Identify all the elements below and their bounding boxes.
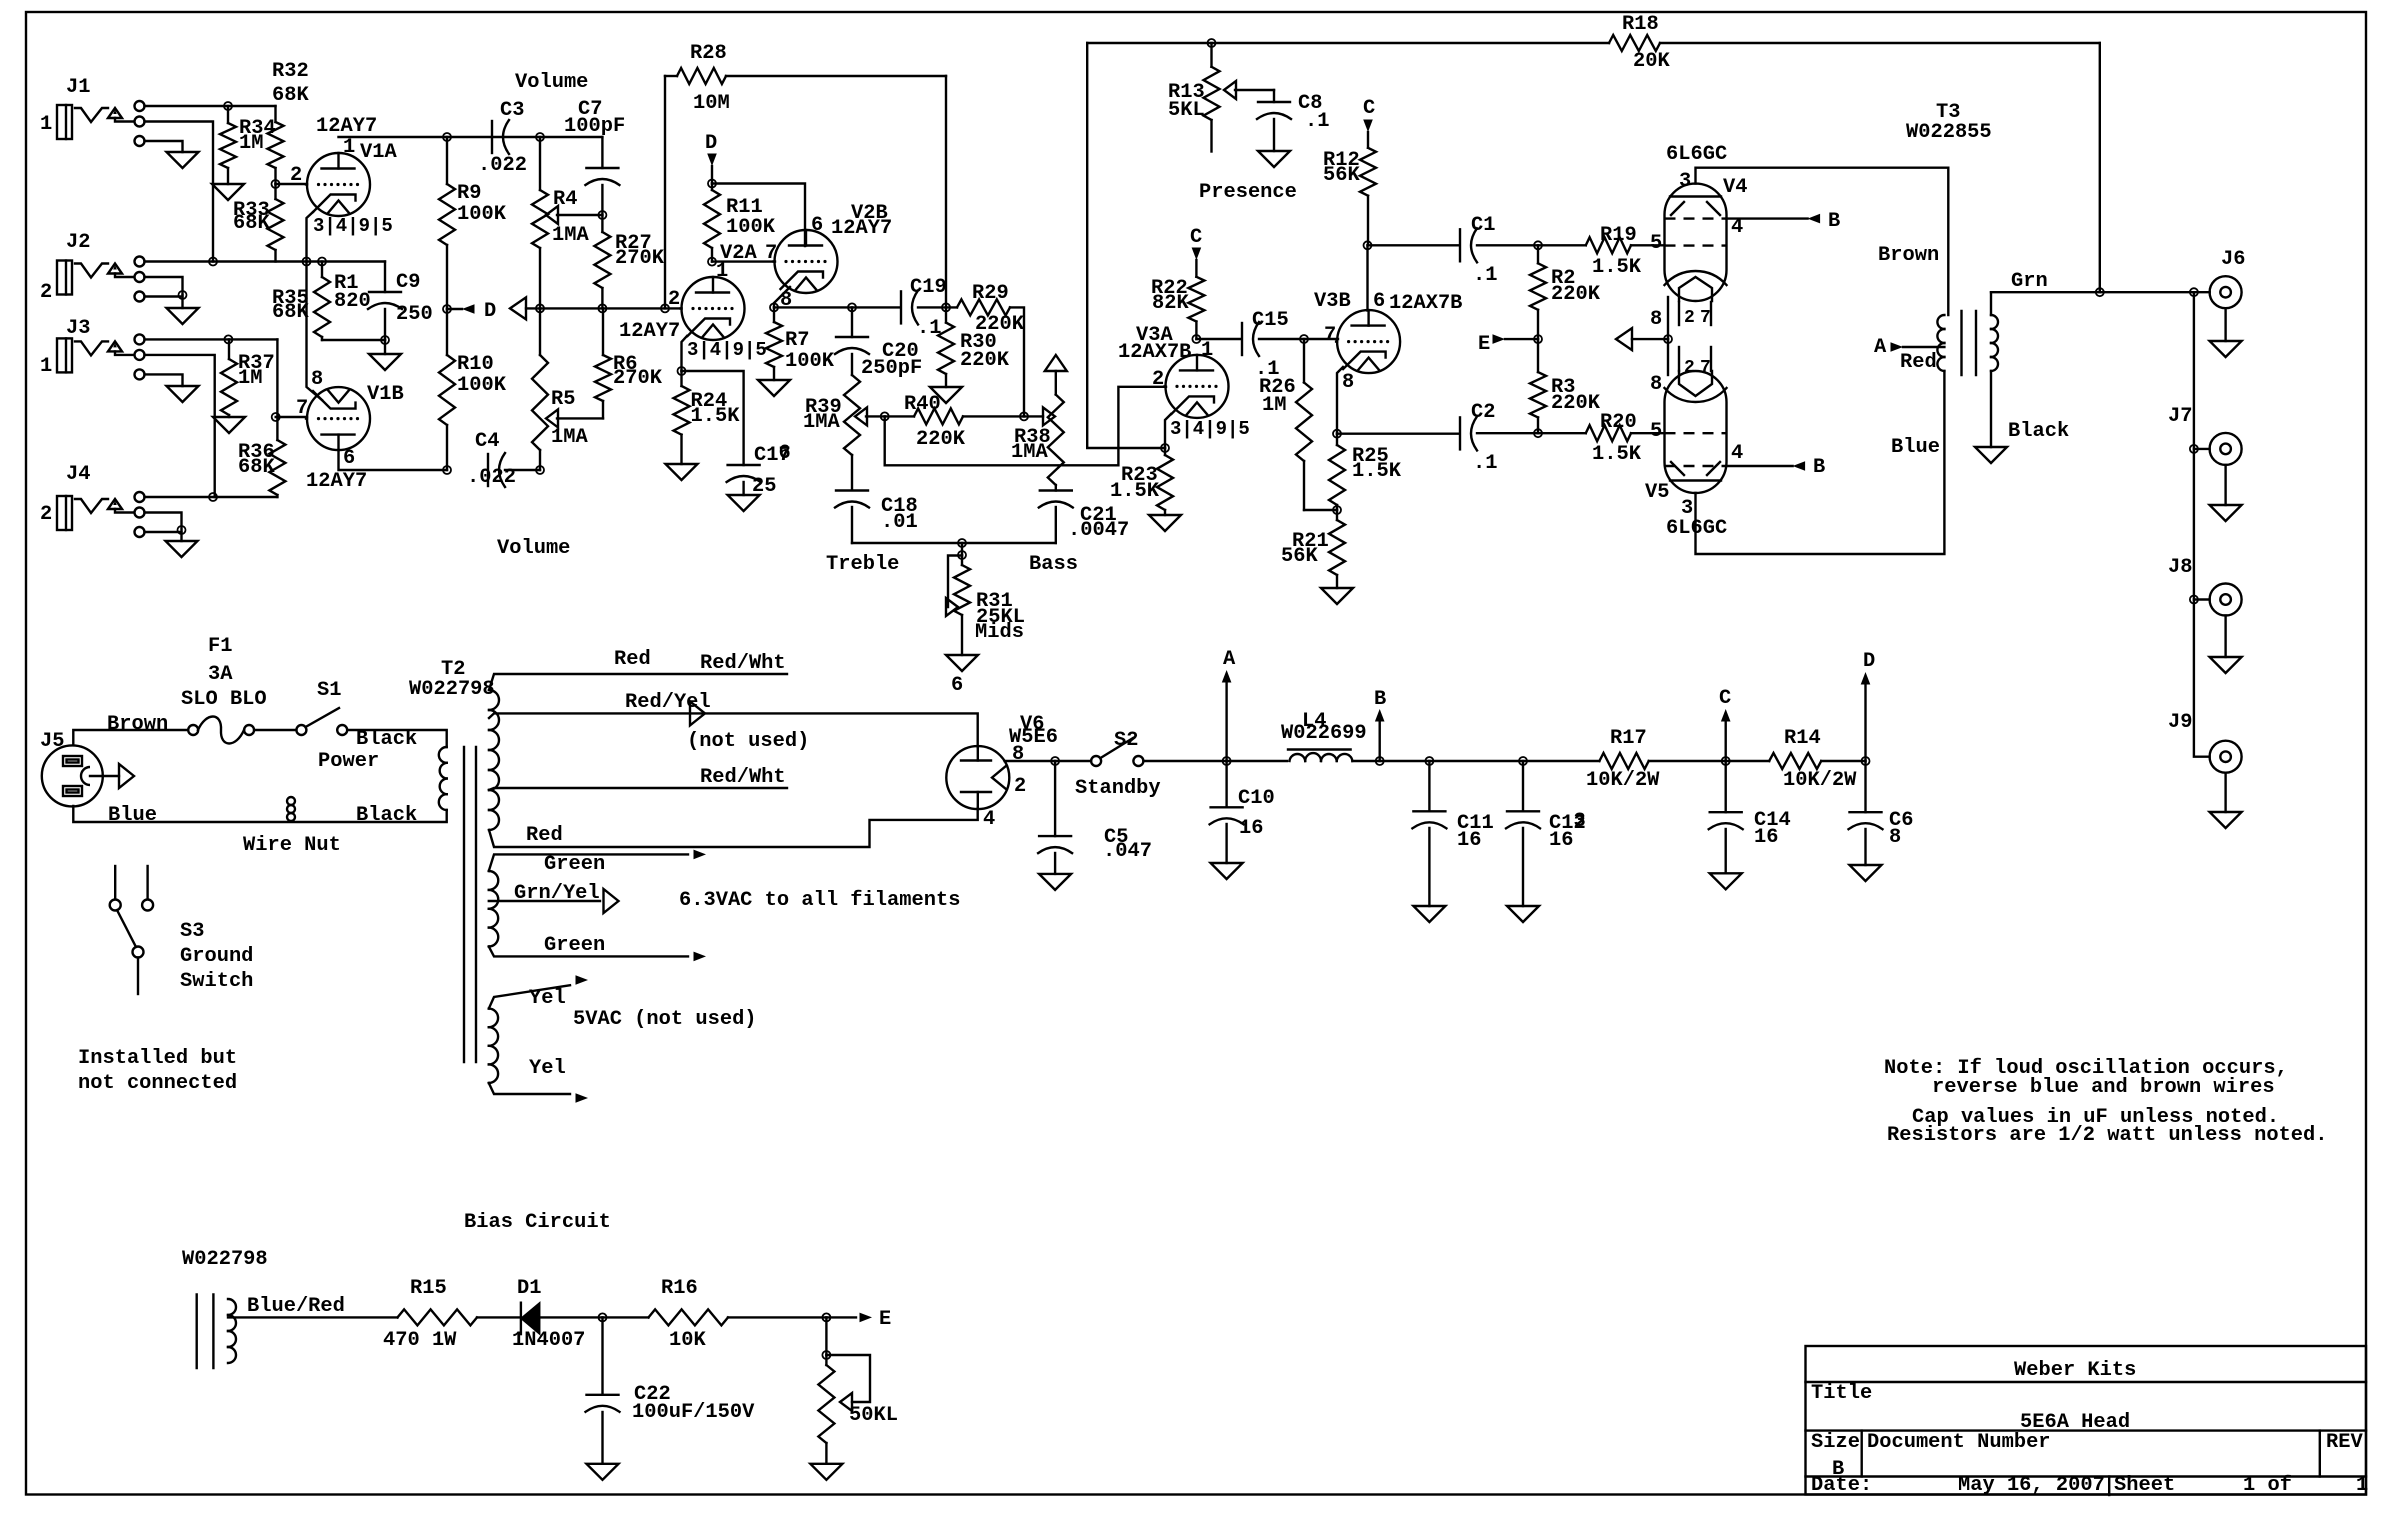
R9 value 100K (457, 203, 507, 226)
potentiometer R13 presence (1204, 43, 1220, 152)
svg-text:R29: R29 (972, 282, 1009, 305)
R19 label (1600, 224, 1637, 247)
V6 type W5E6 (1009, 726, 1058, 749)
Red label HV bottom (526, 824, 563, 847)
svg-text:1 of: 1 of (2243, 1474, 2292, 1497)
svg-text:220K: 220K (960, 349, 1010, 372)
T2 HV redyel lead (489, 713, 978, 747)
power plug J5 (42, 745, 119, 806)
R23 label (1121, 464, 1158, 487)
net D tag (447, 300, 496, 323)
R29 value 220K (975, 313, 1025, 336)
V1A cathode wire (307, 212, 314, 262)
J3 sleeve contact (135, 369, 145, 379)
wire C1 to R19 (1477, 244, 1586, 246)
R12 value 56K (1323, 164, 1360, 187)
junction C rail (1722, 757, 1730, 765)
V5 cathode dome (1665, 388, 1727, 402)
Blue/Red label (247, 1295, 345, 1318)
Black label top (356, 728, 417, 751)
J1 sleeve contact (135, 136, 145, 146)
svg-text:V3B: V3B (1314, 290, 1351, 313)
R6 label (613, 353, 637, 376)
capacitor C21 (1039, 491, 1073, 544)
wire J9 ground stem (2224, 773, 2226, 812)
net D arrow rail (1861, 650, 1876, 761)
net A arrow (1222, 648, 1236, 761)
wire V3B cathode row (1337, 433, 1459, 435)
wire speaker jack chain (2194, 292, 2210, 757)
T2 yel bottom lead (489, 1083, 570, 1094)
svg-text:82K: 82K (1152, 292, 1189, 315)
svg-text:2: 2 (1684, 308, 1695, 328)
V3A cathode wire (1165, 414, 1171, 448)
S1 label (317, 679, 341, 702)
svg-text:R16: R16 (661, 1277, 698, 1300)
not connected label (78, 1072, 237, 1095)
R30 label (960, 331, 997, 354)
heater arrow bottom (694, 952, 707, 962)
svg-text:Black: Black (356, 804, 417, 827)
V5 plate dashed (1665, 465, 1727, 467)
R24 value 1.5K (691, 405, 741, 428)
junction R11/V2A plate (708, 258, 716, 266)
V1A pins 3|4|9|5 (313, 215, 393, 237)
wire J4 tip rail (145, 496, 278, 498)
switch S2 (1091, 738, 1143, 766)
C2 label (1471, 401, 1495, 424)
R24 label (691, 390, 728, 413)
J7 label (2168, 405, 2192, 428)
C3 label (500, 99, 524, 122)
svg-text:1N4007: 1N4007 (512, 1329, 585, 1352)
J2 sleeve contact (135, 292, 145, 302)
L4 part number W022699 (1281, 722, 1367, 745)
J8 label (2168, 556, 2192, 579)
svg-text:V4: V4 (1723, 176, 1747, 199)
C9 label (396, 271, 420, 294)
svg-text:2: 2 (40, 503, 52, 526)
V5 heater pins 2 7 (1679, 347, 1711, 378)
junction R2/R3 node E (1534, 335, 1542, 343)
R6 value 270K (613, 367, 663, 390)
ground R34 (212, 184, 244, 200)
svg-text:Blue: Blue (108, 804, 157, 827)
V3B pin 8 label (1342, 371, 1354, 394)
wire R26 bottom (1304, 509, 1337, 511)
ground C6 (1850, 865, 1882, 881)
R34 value 1M (239, 132, 263, 155)
junction V3B plate (1364, 241, 1372, 249)
note oscillation line 2 (1932, 1076, 2275, 1099)
junction V3A plate (1192, 335, 1200, 343)
capacitor C3 (492, 120, 509, 154)
svg-text:16: 16 (1549, 829, 1573, 852)
resistor R14 (1769, 753, 1865, 769)
ground R24 (666, 464, 698, 480)
V3B pin 6 label (1373, 290, 1385, 313)
svg-text:16: 16 (1239, 817, 1263, 840)
V4 heater pins 2 7 (1679, 302, 1711, 328)
junction V1B plate/R10 (443, 466, 451, 474)
R10 label (457, 353, 494, 376)
wire C19 to R29 (918, 306, 957, 308)
capacitor C20 (835, 307, 869, 375)
R2 value 220K (1551, 283, 1601, 306)
junction plate/R4 (536, 133, 544, 141)
R37 value 1M (238, 367, 262, 390)
resistor R36 (269, 417, 285, 497)
wire S1 to T2 (347, 730, 447, 747)
V2B grid wire (712, 260, 775, 262)
R39 wiper (855, 407, 885, 425)
R36 value 68K (238, 456, 275, 479)
transformer T2 HV winding (489, 690, 499, 830)
V5 pin 4 label (1731, 442, 1743, 465)
sheet 1 of (2243, 1474, 2292, 1497)
R39 label (805, 396, 842, 419)
svg-text:3A: 3A (208, 663, 233, 686)
Red label T3 (1900, 351, 1937, 374)
svg-text:J4: J4 (66, 463, 90, 486)
svg-text:270K: 270K (615, 247, 665, 270)
C5 label (1104, 826, 1128, 849)
ground R31 (946, 655, 978, 671)
wire V3B plate row (1368, 244, 1460, 246)
title block date row line (1806, 1475, 2367, 1477)
V3B type 12AX7B (1389, 292, 1462, 315)
V2B type 12AY7 (831, 217, 892, 240)
V6 label (1020, 713, 1044, 736)
junction R13 top (1208, 39, 1216, 47)
wire J1 ring down to J2 tip (145, 122, 214, 262)
svg-text:C3: C3 (500, 99, 524, 122)
svg-text:Black: Black (2008, 420, 2069, 443)
svg-text:68K: 68K (233, 212, 270, 235)
C22 label (634, 1383, 671, 1406)
wire R13 wiper to C8 (1273, 90, 1275, 102)
svg-text:V1B: V1B (367, 383, 404, 406)
bias pot value 50KL (849, 1404, 898, 1427)
svg-text:Ground: Ground (180, 945, 253, 968)
resistor R24 (674, 371, 690, 464)
svg-text:D1: D1 (517, 1277, 541, 1300)
junction C5 (1051, 757, 1059, 765)
svg-text:R10: R10 (457, 353, 494, 376)
V4 pin 4 label (1731, 216, 1743, 239)
ground C5 (1039, 874, 1071, 890)
capacitor C19 (901, 290, 918, 324)
R33 value 68K (233, 212, 270, 235)
Black label bottom (356, 804, 417, 827)
svg-text:J6: J6 (2221, 248, 2245, 271)
R15 label (410, 1277, 447, 1300)
R27 value 270K (615, 247, 665, 270)
svg-text:Switch: Switch (180, 970, 253, 993)
Presence label (1199, 181, 1297, 204)
ground J3 sleeve (167, 386, 199, 402)
ground R21 (1321, 588, 1353, 604)
V1A label (360, 141, 397, 164)
svg-text:D: D (1863, 650, 1875, 673)
Volume label top (515, 71, 588, 94)
net B arrow V5 (1793, 456, 1826, 479)
V2B label (851, 202, 888, 225)
V1B pin 8 label (311, 368, 323, 391)
C12 value 16 (1549, 829, 1573, 852)
V4 top hatch right (1707, 202, 1720, 215)
svg-text:Bias Circuit: Bias Circuit (464, 1211, 611, 1234)
V5 grid dashed (1665, 432, 1727, 434)
resistor R40 (885, 408, 1024, 424)
svg-text:1: 1 (40, 355, 52, 378)
V3B plate lead (1366, 245, 1368, 310)
R14 value 10K/2W (1783, 769, 1857, 792)
capacitor C10 (1210, 761, 1244, 863)
Power label (318, 750, 379, 773)
V3A grid pin 2 label (1152, 368, 1164, 391)
inductor L4 (1288, 750, 1352, 762)
wire mids stem (961, 543, 963, 555)
potentiometer R4 (532, 137, 548, 309)
svg-text:1M: 1M (1262, 394, 1286, 417)
T2 part number W022798 (409, 678, 495, 701)
svg-text:Resistors are 1/2 watt unless: Resistors are 1/2 watt unless noted. (1887, 1124, 2328, 1147)
C20 value 250pF (861, 357, 922, 380)
wire tone stack bottom (852, 542, 1056, 544)
Black label T3 (2008, 420, 2069, 443)
Grn/Yel open arrow (604, 889, 619, 913)
svg-text:10M: 10M (693, 92, 730, 115)
svg-text:S3: S3 (180, 920, 204, 943)
speaker jack J7 (2210, 433, 2242, 465)
R13 wiper (1224, 81, 1274, 99)
svg-text:10K/2W: 10K/2W (1783, 769, 1857, 792)
svg-text:Red: Red (614, 648, 651, 671)
wire to ground R1C9 (384, 340, 386, 354)
bias pot wiper (826, 1355, 870, 1411)
junction V2A cathode (678, 367, 686, 375)
svg-text:100pF: 100pF (564, 115, 625, 138)
C3 value .022 (478, 154, 527, 177)
title block outer box (1806, 1346, 2367, 1495)
Grn/Yel label (514, 882, 600, 905)
resistor R9 (439, 137, 455, 309)
V2B cathode wire (774, 287, 790, 307)
svg-text:250: 250 (396, 303, 433, 326)
C7 label (578, 98, 602, 121)
wire presence line down (1087, 43, 1165, 448)
junction V1A grid node (272, 180, 280, 188)
R14 label (1784, 727, 1821, 750)
C4 value .022 (467, 466, 516, 489)
R1 label (334, 272, 358, 295)
R40 label (904, 393, 941, 416)
V2A cathode wire (682, 336, 688, 371)
svg-text:100K: 100K (457, 203, 507, 226)
svg-text:2: 2 (1152, 368, 1164, 391)
T3 part number W022855 (1906, 121, 1992, 144)
wire volume row (540, 307, 682, 309)
R29 label (972, 282, 1009, 305)
title block rev divider (2319, 1431, 2321, 1477)
ground C12 (1507, 906, 1539, 922)
svg-text:10K/2W: 10K/2W (1586, 769, 1660, 792)
svg-text:A: A (1223, 648, 1236, 671)
Blue label AC (108, 804, 157, 827)
capacitor C5 (1038, 761, 1072, 874)
junction R1 top (318, 258, 326, 266)
resistor R27 (594, 215, 610, 308)
resistor R28 (665, 68, 946, 84)
Red/Wht label 2 (700, 766, 786, 789)
R27 label (615, 232, 652, 255)
D1 label (517, 1277, 541, 1300)
R25 value 1.5K (1352, 460, 1402, 483)
svg-text:270K: 270K (613, 367, 663, 390)
V1B plate wire (339, 450, 448, 470)
transformer T2 heater winding (489, 871, 498, 947)
wire D to V2B plate (712, 184, 805, 247)
R16 value 10K (669, 1329, 706, 1352)
resistor R19 (1586, 237, 1665, 253)
svg-text:1M: 1M (238, 367, 262, 390)
wire V3A plate to C15 (1196, 338, 1241, 340)
junction J4 ring/sleeve (178, 526, 186, 534)
junction V1B grid (272, 413, 280, 421)
resistor R25 (1329, 434, 1345, 510)
C1 value .1 (1473, 264, 1497, 287)
resistor R33 (268, 184, 284, 262)
title block title row line (1806, 1429, 2367, 1431)
wire J3 sleeve to ground (145, 374, 183, 386)
junction V2B cathode (770, 303, 778, 311)
svg-text:Red/Wht: Red/Wht (700, 652, 786, 675)
junction J8 (2190, 596, 2198, 604)
R13 value 5KL (1168, 99, 1205, 122)
R35 value 68K (272, 301, 309, 324)
resistor R17 (1599, 753, 1769, 769)
svg-text:May 16, 2007: May 16, 2007 (1958, 1474, 2105, 1497)
diode D1 (521, 1303, 603, 1334)
svg-text:4: 4 (1731, 442, 1743, 465)
svg-text:Bass: Bass (1029, 553, 1078, 576)
svg-text:.1: .1 (1473, 452, 1497, 475)
V5 pin 4 wire (1727, 465, 1793, 467)
J3 pin 1 label (40, 355, 52, 378)
svg-text:8: 8 (311, 368, 323, 391)
wire L4 to R17 (1352, 760, 1599, 762)
wire J7 ground stem (2224, 465, 2226, 505)
svg-text:R28: R28 (690, 42, 727, 65)
junction R27/R6 (598, 304, 606, 312)
junction plate/R9 (443, 133, 451, 141)
junction bias pot wiper (822, 1351, 830, 1359)
T2 green top lead (489, 854, 688, 871)
R40 value 220K (916, 428, 966, 451)
J2 label (66, 231, 90, 254)
C14 label (1754, 809, 1791, 832)
net arrow to cathodes (1616, 328, 1668, 350)
wire V1A plate rail (339, 136, 603, 138)
ground bias pot (810, 1464, 842, 1480)
S3 Switch label (180, 970, 253, 993)
svg-text:REV: REV (2326, 1431, 2363, 1454)
T2 core (464, 747, 476, 1062)
Red/Yel open arrow (690, 701, 705, 725)
svg-text:R9: R9 (457, 182, 481, 205)
C15 value .1 (1255, 358, 1279, 381)
V4 top hatch left (1671, 202, 1684, 215)
R5 wiper (546, 409, 603, 427)
resistor R10 (439, 309, 455, 470)
V3A pin 1 label (1201, 339, 1213, 362)
svg-text:C15: C15 (1252, 309, 1289, 332)
resistor R30 (938, 307, 954, 387)
svg-text:(not used): (not used) (687, 730, 809, 753)
svg-text:B: B (1813, 456, 1825, 479)
C18 label (881, 495, 918, 518)
svg-text:12AY7: 12AY7 (306, 470, 367, 493)
svg-text:Red: Red (1900, 351, 1937, 374)
svg-text:2: 2 (290, 164, 302, 187)
V1A grid pin 2 label (290, 164, 302, 187)
svg-text:Title: Title (1811, 1382, 1872, 1405)
5VAC note (573, 1008, 757, 1031)
transformer T3 primary coil (1937, 315, 1944, 371)
V3B label (1314, 290, 1351, 313)
V4 pin 8 label (1650, 308, 1662, 331)
R36 label (238, 441, 275, 464)
svg-text:R40: R40 (904, 393, 941, 416)
svg-text:5: 5 (1650, 232, 1662, 255)
R11 label (726, 196, 763, 219)
triode V3A (1165, 355, 1229, 418)
J1 ring contact (135, 117, 145, 127)
svg-text:R19: R19 (1600, 224, 1637, 247)
Bass label (1029, 553, 1078, 576)
svg-text:250pF: 250pF (861, 357, 922, 380)
T2 green bottom lead (489, 947, 688, 957)
6L6GC label bottom (1666, 517, 1727, 540)
svg-text:J9: J9 (2168, 711, 2192, 734)
svg-text:6L6GC: 6L6GC (1666, 143, 1727, 166)
capacitor C18 (835, 491, 869, 544)
svg-text:1: 1 (2356, 1474, 2368, 1497)
svg-text:J7: J7 (2168, 405, 2192, 428)
svg-text:1MA: 1MA (552, 224, 589, 247)
C17 label (754, 442, 791, 467)
svg-text:100K: 100K (457, 374, 507, 397)
jack J2 (57, 261, 134, 295)
capacitor C11 (1412, 761, 1446, 906)
svg-text:8: 8 (1342, 371, 1354, 394)
bias transformer coil (228, 1299, 236, 1363)
V4 plate dashed (1665, 217, 1727, 219)
svg-text:J3: J3 (66, 317, 90, 340)
svg-text:Power: Power (318, 750, 379, 773)
capacitor C2 (1460, 416, 1477, 450)
triode V1A (306, 153, 370, 216)
ground R7 (758, 380, 790, 396)
net C arrow to R22 (1190, 226, 1202, 277)
switch S3 (110, 866, 153, 994)
V4 pin 3 label (1679, 170, 1691, 193)
ground C22 (587, 1464, 619, 1480)
C19 value .1 (917, 317, 941, 340)
F1 value 3A (208, 663, 233, 686)
Date label (1811, 1474, 1872, 1497)
